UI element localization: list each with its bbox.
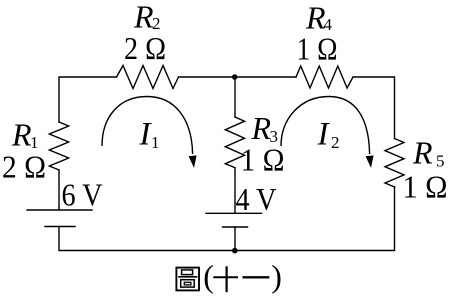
wire top-right segment	[353, 77, 395, 139]
caption glyph shi (ten)	[213, 266, 238, 292]
resistor R4	[296, 66, 353, 88]
wire middle R3 to battery	[234, 168, 236, 214]
svg-text:I: I	[317, 117, 331, 153]
caption glyph tu (figure)	[176, 268, 199, 291]
svg-text:1 Ω: 1 Ω	[241, 142, 285, 178]
caption glyph yi (one)	[243, 276, 270, 278]
svg-text:R: R	[412, 135, 433, 171]
wire left R1 to battery	[58, 170, 60, 210]
wire top-middle segment	[179, 76, 297, 78]
svg-text:): )	[271, 258, 282, 294]
resistor R5	[385, 139, 404, 188]
svg-text:1 Ω: 1 Ω	[403, 169, 448, 205]
node B bottom junction dot	[232, 248, 238, 254]
battery B1 short plate	[45, 226, 75, 228]
svg-text:2 Ω: 2 Ω	[124, 30, 166, 66]
svg-text:2 Ω: 2 Ω	[2, 149, 46, 185]
resistor R1	[49, 122, 68, 170]
svg-text:1 Ω: 1 Ω	[297, 31, 338, 67]
resistor R2	[117, 66, 179, 89]
svg-text:R: R	[11, 117, 32, 153]
wire left battery to bottom	[59, 227, 235, 251]
wire middle top	[234, 77, 236, 117]
resistor R3	[225, 117, 244, 168]
svg-text:2: 2	[331, 133, 340, 152]
loop current I2 arrow	[281, 97, 370, 155]
svg-text:6 V: 6 V	[62, 177, 103, 213]
wire right bottom	[235, 187, 395, 251]
wire top-left segment	[59, 77, 117, 122]
battery B2 long plate	[206, 212, 262, 214]
wire middle battery to bottom	[234, 227, 236, 251]
battery B2 short plate	[223, 226, 248, 228]
loop current I1 arrow	[102, 97, 193, 155]
svg-text:(: (	[203, 258, 214, 294]
battery B1 long plate	[27, 209, 92, 211]
svg-text:1: 1	[151, 133, 160, 152]
node A top junction dot	[232, 74, 238, 80]
svg-text:4 V: 4 V	[236, 181, 277, 217]
